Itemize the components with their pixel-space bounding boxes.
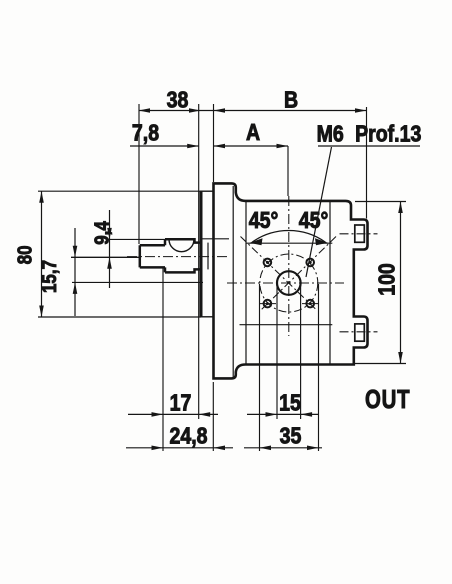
svg-text:A: A	[246, 120, 260, 146]
dimension line 35	[244, 447, 322, 449]
arrow 17 left (outside)	[152, 412, 164, 417]
extension line 80 top	[38, 190, 200, 192]
extension line 24,8 right (flange face bottom)	[212, 382, 214, 451]
arrow 35 right (inside)	[307, 446, 319, 451]
upper port thread rectangle	[355, 225, 365, 242]
dimension line 17	[128, 413, 218, 415]
extension line 17/24,8 left (shaft step)	[162, 268, 164, 451]
svg-text:9,4: 9,4	[90, 221, 113, 245]
svg-text:7,8: 7,8	[132, 120, 159, 146]
svg-text:80: 80	[13, 245, 36, 264]
dimension line 100	[400, 202, 402, 364]
svg-text:45°: 45°	[299, 208, 329, 234]
extension line 100 top	[355, 201, 406, 203]
diagonal centerline 45 deg B	[262, 237, 337, 310]
arrow 15,7 bottom (outside)	[73, 282, 78, 294]
arc arrowhead right	[315, 238, 328, 245]
arrow 24,8 left (outside)	[152, 446, 164, 451]
extension line 100 bottom	[355, 363, 406, 365]
horizontal centerline of body	[227, 282, 344, 284]
svg-text:15,7: 15,7	[38, 260, 61, 293]
body shoulder line right	[329, 202, 331, 365]
svg-text:35: 35	[280, 423, 302, 449]
diagonal centerline 45 deg A	[241, 237, 317, 310]
bolt circle (dash-dot)	[260, 254, 318, 312]
lower port thread rectangle	[355, 324, 365, 341]
extension line 15,7 bottom (body axis)	[72, 281, 203, 283]
svg-text:100: 100	[374, 263, 400, 296]
bolt hole upper-left M6	[264, 259, 272, 267]
leader underline M6 Prof.13	[318, 145, 420, 147]
gear chamber bottom edge	[240, 324, 333, 326]
keyway line on boss	[202, 238, 229, 240]
shaft bore hidden edge	[207, 243, 209, 270]
body shoulder line left	[245, 202, 247, 365]
extension line A right (to body centerline)	[287, 146, 289, 196]
dimension line A	[214, 145, 289, 147]
dimension line 9,4	[109, 210, 111, 288]
shaft centerline	[127, 256, 227, 258]
body outline	[214, 183, 368, 378]
angular dimension arc 45	[252, 230, 326, 242]
arrow A left	[214, 144, 226, 149]
extension line 35 right (bolt circle tangent)	[318, 284, 320, 451]
extension line B right (port outer)	[366, 107, 368, 219]
svg-text:OUT: OUT	[365, 385, 410, 414]
extension line 80 bottom / pilot bottom	[38, 316, 201, 318]
bolt hole upper-right M6	[306, 259, 314, 267]
arrow B right	[355, 108, 367, 113]
extension line shaft end (38 left)	[138, 104, 140, 244]
extension line pilot face top (38 right / 7,8)	[198, 104, 200, 419]
svg-text:45°: 45°	[249, 208, 279, 234]
vertical centerline of body	[288, 196, 290, 336]
arrow 35 left (inside)	[260, 446, 272, 451]
shared extension line at shaft axis	[71, 256, 140, 258]
shaft keyway arc	[169, 239, 194, 252]
svg-text:38: 38	[167, 87, 189, 113]
dimension line 15,7	[74, 228, 76, 316]
extension line 35 left (bolt circle tangent)	[259, 284, 261, 451]
arrow 38 right	[189, 108, 201, 113]
svg-text:17: 17	[170, 390, 192, 416]
arrow 15,7 top (outside)	[73, 246, 78, 257]
arrow 17 right (outside)	[199, 412, 211, 417]
arrow 80 top	[39, 191, 44, 203]
bolt hole lower-left M6	[264, 300, 272, 308]
arrow 100 top	[398, 202, 403, 214]
arrow A right	[277, 144, 289, 149]
central bore circle	[277, 271, 301, 295]
leader line M6	[306, 147, 332, 277]
arrow 9,4 top (outside)	[107, 228, 112, 240]
dimension line 80	[41, 191, 43, 317]
arrow 38 left	[139, 108, 151, 113]
arrow 100 bottom	[398, 352, 403, 364]
extension line 15 right (bore tangent)	[300, 284, 302, 419]
shaft small end	[140, 239, 165, 272]
arc arrowhead left	[250, 238, 263, 245]
dimension line 38 and B	[139, 110, 367, 112]
extension line 15 left (bore tangent)	[276, 284, 278, 419]
arrow 15 left (outside)	[266, 412, 278, 417]
bolt hole lower-right M6	[306, 300, 314, 308]
svg-text:Prof.13: Prof.13	[355, 121, 421, 147]
dimension line 7,8	[130, 145, 199, 147]
flange right edge	[232, 186, 234, 377]
arrow 7,8 right (outside)	[187, 144, 199, 149]
dimension line 15	[247, 413, 319, 415]
extension line flange face top (B/A left)	[213, 104, 215, 182]
lower-right hole horizontal tick	[302, 303, 319, 305]
arrow 24,8 right (outside)	[214, 446, 226, 451]
dimension line 24,8	[126, 447, 233, 449]
svg-text:24,8: 24,8	[169, 423, 207, 449]
svg-text:B: B	[284, 87, 298, 113]
pilot boss outline	[200, 191, 214, 317]
lower-left hole horizontal tick	[259, 303, 276, 305]
gear chamber top edge	[246, 242, 333, 244]
arrow 15 right (outside)	[301, 412, 313, 417]
shaft large section	[165, 239, 200, 272]
arrow B left	[214, 108, 226, 113]
pad edge below lower boss	[353, 348, 355, 365]
svg-text:15: 15	[279, 390, 301, 416]
extension line 9,4 top	[106, 238, 166, 240]
arrow 9,4 bottom (outside)	[107, 257, 112, 269]
upper port centerline	[340, 233, 378, 235]
svg-text:M6: M6	[317, 121, 344, 147]
arrow 80 bottom	[39, 306, 44, 318]
lower port centerline	[340, 331, 378, 333]
